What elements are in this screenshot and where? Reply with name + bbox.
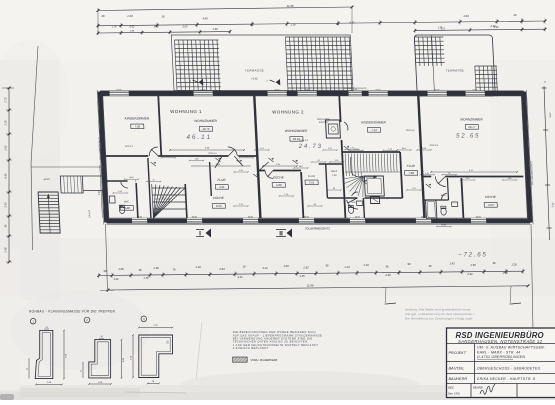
- door arc stairwell top: [344, 122, 348, 130]
- svg-text:4.40: 4.40: [494, 26, 499, 29]
- svg-text:1.01: 1.01: [412, 188, 416, 190]
- scan smudge bottom-left: [0, 394, 14, 400]
- svg-text:1.48: 1.48: [154, 26, 159, 29]
- detail 3 dims: [139, 327, 173, 329]
- right vertical chain: [544, 86, 550, 240]
- svg-text:+2.62: +2.62: [251, 77, 258, 81]
- svg-text:W/C: W/C: [124, 200, 129, 204]
- top chain B: [97, 21, 545, 26]
- door arc stairwell bottom: [347, 200, 358, 209]
- svg-text:KÜCHE: KÜCHE: [485, 195, 497, 199]
- WC W1 toilet: [119, 206, 125, 213]
- small dim marks along walls: [160, 156, 176, 159]
- outer wall right: [524, 92, 531, 223]
- left vertical chain: [8, 88, 10, 262]
- svg-text:1.01: 1.01: [425, 173, 429, 175]
- svg-text:FLUR: FLUR: [407, 164, 416, 168]
- W2 bath sink: [357, 201, 363, 206]
- svg-text:1.01: 1.01: [239, 170, 243, 172]
- svg-text:90: 90: [104, 269, 107, 273]
- svg-text:7.45: 7.45: [135, 125, 141, 129]
- terrace 1 door arrow left: [198, 79, 203, 86]
- svg-text:1.10: 1.10: [195, 265, 201, 269]
- windows bottom wall: [131, 218, 147, 223]
- wall horizontal stairwell top y152: [342, 151, 400, 153]
- door arc W1 wohnzimmer: [149, 147, 158, 156]
- svg-text:VOLLWÄRMESCHUTZ: VOLLWÄRMESCHUTZ: [305, 228, 330, 231]
- wall horizontal W3 diele bottom y200: [424, 199, 449, 201]
- svg-text:KINDERZIMMER: KINDERZIMMER: [125, 117, 150, 121]
- svg-text:1.01: 1.01: [328, 148, 332, 150]
- extension drops: [385, 287, 386, 305]
- svg-text:WOHNUNG 2: WOHNUNG 2: [272, 110, 304, 115]
- svg-text:KASTEN: KASTEN: [319, 121, 329, 124]
- wall W1/W2 divider x257: [254, 96, 260, 218]
- svg-text:26: 26: [428, 264, 432, 268]
- svg-text:WOHNZIMMER: WOHNZIMMER: [194, 119, 218, 123]
- svg-text:1.26: 1.26: [511, 263, 517, 267]
- svg-text:OBERGESCHOSS - GEBÄUDETEIL: OBERGESCHOSS - GEBÄUDETEIL: [477, 367, 541, 371]
- svg-text:UM- U. AUSBAU WIRTSCHAFTSGEB.: UM- U. AUSBAU WIRTSCHAFTSGEB.: [477, 346, 545, 350]
- svg-text:TERRASSE: TERRASSE: [245, 69, 265, 73]
- interior vertical dim left inside: [100, 165, 103, 218]
- svg-text:6.67: 6.67: [549, 112, 552, 117]
- svg-text:1.76: 1.76: [112, 26, 117, 29]
- svg-text:Die Herstellung von Zeichnunge: Die Herstellung von Zeichnungen erfolgt …: [405, 317, 473, 321]
- svg-text:BAUHERR: BAUHERR: [449, 377, 468, 381]
- svg-text:und ggf. in Abstimmung mit dem: und ggf. in Abstimmung mit dem Unternehm…: [405, 312, 474, 316]
- windows top wall: [109, 91, 129, 96]
- svg-text:11.89: 11.89: [307, 284, 314, 288]
- svg-text:BAUTEIL: BAUTEIL: [449, 367, 465, 371]
- svg-text:2 4 . 7 3: 2 4 . 7 3: [297, 143, 321, 150]
- svg-text:6.40: 6.40: [5, 173, 8, 178]
- svg-text:2.34: 2.34: [551, 202, 554, 208]
- wall dusche W2 x326-341: [326, 120, 341, 138]
- svg-text:1.76: 1.76: [143, 276, 149, 280]
- interior dim W1: [170, 149, 244, 151]
- svg-text:2.30: 2.30: [131, 355, 133, 361]
- svg-text:4.90: 4.90: [463, 14, 469, 18]
- door arc W2 bath: [352, 192, 359, 196]
- insulation band outer lines: [100, 89, 524, 91]
- svg-text:16: 16: [162, 15, 165, 19]
- detail circle 2: [84, 317, 90, 323]
- svg-text:0.62: 0.62: [130, 26, 135, 29]
- svg-text:76: 76: [173, 268, 176, 272]
- svg-text:ROHBAU - PLANUNGSMASSE FÜR DIE: ROHBAU - PLANUNGSMASSE FÜR DIE TREPPEN: [29, 310, 116, 314]
- svg-text:1.13: 1.13: [344, 265, 350, 269]
- svg-text:3.51: 3.51: [309, 181, 315, 185]
- terrace 1 door arrow right: [275, 79, 280, 86]
- wall W2 bath x361: [363, 198, 364, 218]
- door arc W3 bad: [441, 193, 447, 200]
- svg-text:ABST.: ABST.: [330, 170, 338, 173]
- svg-text:1.01: 1.01: [113, 277, 119, 281]
- svg-text:36: 36: [326, 263, 329, 267]
- svg-text:VOLLWÄRMESCHUTZ: VOLLWÄRMESCHUTZ: [344, 87, 367, 90]
- svg-text:O-4751 OBERRÖBLINGEN: O-4751 OBERRÖBLINGEN: [477, 355, 525, 359]
- svg-text:90: 90: [408, 262, 411, 266]
- svg-text:26.77: 26.77: [467, 125, 476, 129]
- top chain C partial left: [98, 32, 230, 33]
- svg-text:SANGERHAUSEN, NOTENSTRAßE 12: SANGERHAUSEN, NOTENSTRAßE 12: [458, 339, 543, 344]
- svg-text:VORH. MAUERWERK: VORH. MAUERWERK: [251, 358, 278, 362]
- svg-text:4.86: 4.86: [202, 17, 208, 21]
- svg-text:KÜCHE: KÜCHE: [273, 176, 285, 180]
- svg-text:9.63: 9.63: [488, 203, 494, 207]
- interior dim W3: [431, 171, 517, 173]
- svg-text:4.31: 4.31: [349, 21, 355, 25]
- bottom chain total 11.89: [108, 286, 528, 290]
- svg-text:7.14: 7.14: [371, 128, 377, 132]
- svg-text:11.98: 11.98: [287, 4, 294, 8]
- wall horizontal W1 rooms bottom y156: [103, 155, 148, 157]
- interior dim W2: [263, 165, 297, 167]
- wall W3 diele x446: [447, 178, 448, 200]
- detail shape 3 (corner profile): [139, 335, 173, 378]
- door leaf diagonals W1 flur: [234, 156, 243, 166]
- svg-text:5 2 . 6 5: 5 2 . 6 5: [456, 133, 479, 140]
- svg-text:2.64: 2.64: [65, 353, 68, 359]
- svg-text:4.12: 4.12: [237, 275, 243, 279]
- svg-text:1.36: 1.36: [153, 266, 159, 270]
- stair walk line with arrow: [350, 157, 373, 177]
- wall W2 divider x342: [339, 96, 340, 122]
- svg-text:POS 3.4: POS 3.4: [208, 152, 217, 155]
- box below landing: [370, 197, 379, 204]
- outer wall bottom: [107, 219, 531, 224]
- detail circle 3: [141, 316, 147, 322]
- W3 bathtub: [426, 200, 437, 219]
- svg-text:2.46: 2.46: [384, 273, 391, 277]
- svg-text:26: 26: [513, 13, 517, 17]
- svg-text:2.10: 2.10: [5, 120, 8, 126]
- svg-text:PROJEKT: PROJEKT: [449, 351, 467, 355]
- svg-text:TERRASSE: TERRASSE: [446, 69, 465, 73]
- W3 sink: [452, 202, 458, 207]
- interior dim kueche W1: [191, 165, 251, 167]
- svg-text:5.88: 5.88: [276, 183, 282, 187]
- terrace 2 bottom-right paving grid: [475, 66, 499, 96]
- svg-text:1.80: 1.80: [332, 175, 337, 177]
- svg-text:±0.00: ±0.00: [43, 178, 50, 181]
- svg-text:8.50: 8.50: [216, 204, 222, 208]
- right extension vertical: [531, 224, 533, 330]
- svg-text:7.88: 7.88: [408, 171, 414, 175]
- W2 shower square: [328, 124, 338, 134]
- site line horizontal: [31, 166, 104, 168]
- svg-text:1.10: 1.10: [363, 263, 369, 267]
- detail 1 top tick: [44, 328, 49, 330]
- svg-text:1.00: 1.00: [118, 267, 124, 271]
- svg-text:2.49: 2.49: [126, 14, 133, 18]
- svg-text:1.01: 1.01: [335, 160, 339, 162]
- main stairwell treads: [341, 154, 401, 197]
- W3 toilet: [441, 208, 447, 215]
- door arc W3 entry: [435, 177, 446, 187]
- svg-text:WOHNZIMMER: WOHNZIMMER: [460, 118, 484, 122]
- svg-text:Achtung: Alle Maße sind grunds: Achtung: Alle Maße sind grundsätzlich he…: [405, 308, 471, 312]
- svg-text:Ω: Ω: [521, 18, 524, 22]
- svg-text:DEZ.: DEZ.: [448, 386, 455, 390]
- svg-text:2.79: 2.79: [5, 97, 8, 103]
- detail shape 2 (L profile): [89, 340, 111, 378]
- title block column line: [474, 344, 476, 384]
- wall stair W1 right x183.5: [185, 184, 187, 218]
- terrace 2 left paving grid: [414, 37, 444, 66]
- wall WC W1 x134.5: [136, 183, 138, 218]
- title block frame: [447, 328, 555, 398]
- wall stair W1 left x147.5: [148, 158, 151, 218]
- svg-text:3.48: 3.48: [124, 206, 130, 210]
- svg-text:2.01: 2.01: [159, 197, 164, 199]
- svg-text:ERIKA HECKER - HAUPTSTR. 8: ERIKA HECKER - HAUPTSTR. 8: [477, 377, 535, 381]
- svg-text:36: 36: [139, 268, 142, 272]
- terrace 1 outline: [171, 35, 353, 91]
- wall horizontal WC W1 top y181: [105, 180, 128, 182]
- wall horizontal corridor W2 y164: [319, 163, 343, 165]
- signature squiggle: [480, 384, 495, 394]
- terrace 2 outline: [414, 35, 495, 96]
- stairwell inner landing box: [364, 176, 384, 196]
- door arc WC W1: [121, 182, 128, 188]
- wall kueche W2 right x300: [301, 172, 303, 218]
- svg-text:KINDERZIMMER: KINDERZIMMER: [361, 121, 386, 125]
- outer wall left: [100, 92, 107, 223]
- svg-text:FLUR: FLUR: [308, 174, 315, 178]
- svg-text:26: 26: [101, 14, 105, 18]
- svg-text:WOHNZIMMER: WOHNZIMMER: [285, 129, 309, 133]
- svg-text:2.63: 2.63: [182, 26, 188, 29]
- detail 1 dims: [63, 330, 65, 378]
- svg-text:1.35: 1.35: [299, 274, 305, 278]
- svg-text:14: 14: [45, 327, 47, 329]
- svg-text:1.50: 1.50: [470, 263, 476, 267]
- W1 fan stair treads: [152, 184, 187, 218]
- svg-text:KARL - MARX - STR. 44: KARL - MARX - STR. 44: [477, 350, 521, 354]
- terrace 1 right paving grid: [285, 37, 353, 91]
- svg-text:14: 14: [100, 336, 102, 338]
- svg-text:4.61: 4.61: [219, 185, 225, 189]
- svg-text:4 6 . 1 1: 4 6 . 1 1: [186, 134, 210, 141]
- svg-text:1.70: 1.70: [502, 271, 508, 275]
- left extension vertical: [106, 224, 108, 292]
- wall horizontal stairwell bottom y198: [327, 197, 357, 199]
- svg-text:ROLLADEN: ROLLADEN: [317, 118, 330, 121]
- wall flur/kueche W1 x209: [210, 162, 212, 196]
- wall horizontal W2 wohnzimmer bottom y170.5: [258, 170, 265, 172]
- svg-text:BEARB: BEARB: [473, 386, 483, 390]
- site boundary diagonal: [25, 46, 44, 163]
- exterior landing: [60, 176, 83, 193]
- door arc W2 kueche: [265, 171, 273, 179]
- svg-text:2.63: 2.63: [218, 267, 225, 271]
- WC W1 sink: [109, 196, 115, 203]
- bottom chain main: [99, 271, 523, 275]
- wall stairwell right x400: [400, 152, 402, 198]
- svg-text:2.39: 2.39: [5, 202, 8, 208]
- svg-text:1.43: 1.43: [449, 262, 455, 266]
- detail 2 dims: [121, 340, 123, 378]
- door arc W1 second: [228, 147, 237, 156]
- svg-text:36: 36: [493, 261, 496, 265]
- svg-text:10: 10: [243, 265, 246, 269]
- detail circle 1: [30, 318, 36, 324]
- svg-text:Ω: Ω: [251, 23, 254, 27]
- svg-text:1.36: 1.36: [438, 27, 443, 30]
- svg-text:14: 14: [167, 341, 169, 343]
- terrace 1 left paving grid: [175, 40, 222, 91]
- svg-text:W/C: W/C: [351, 202, 356, 204]
- svg-text:2.62: 2.62: [302, 266, 309, 270]
- svg-text:1.51: 1.51: [260, 148, 264, 150]
- svg-text:KÜCHE: KÜCHE: [213, 196, 225, 200]
- wall abst x325: [326, 164, 328, 198]
- svg-text:4.12: 4.12: [262, 266, 268, 270]
- svg-text:FLUR: FLUR: [217, 178, 226, 182]
- svg-text:1.36: 1.36: [290, 23, 296, 27]
- title block row lines: [447, 343, 555, 345]
- wall horizontal W3 y176.5: [422, 176, 431, 178]
- svg-text:2.63: 2.63: [5, 145, 8, 151]
- wall W3 bad/kueche x460: [461, 178, 463, 218]
- svg-text:POS 3.3: POS 3.3: [300, 140, 309, 142]
- svg-text:1.00: 1.00: [283, 264, 289, 268]
- exterior stair: [38, 192, 60, 233]
- site boundary vertical: [28, 163, 35, 250]
- svg-text:0 EINFACH BEPLANKT: 0 EINFACH BEPLANKT: [233, 346, 269, 350]
- svg-text:2.48: 2.48: [5, 247, 8, 253]
- svg-text:POS 3.1: POS 3.1: [125, 146, 134, 148]
- svg-text:WOHNUNG 1: WOHNUNG 1: [170, 109, 202, 114]
- svg-text:2.92: 2.92: [466, 272, 473, 276]
- svg-text:1.51: 1.51: [118, 191, 122, 193]
- wall W1 room divider x161: [158, 96, 161, 156]
- svg-text:1.30: 1.30: [212, 27, 218, 31]
- svg-text:POS 3.5: POS 3.5: [430, 145, 439, 147]
- inner face lines of outer walls: [103, 95, 522, 97]
- terrace 2 inner divider: [432, 35, 435, 96]
- paper crease line: [196, 322, 202, 380]
- svg-text:Ω: Ω: [337, 22, 340, 26]
- detail shape 1 (boot profile): [35, 330, 53, 378]
- outer wall top: [100, 91, 524, 96]
- svg-text:36: 36: [386, 264, 389, 268]
- svg-text:18.76: 18.76: [202, 127, 210, 131]
- svg-text:~ 7 2 . 6 5: ~ 7 2 . 6 5: [458, 252, 486, 259]
- svg-text:Dez. 1991: Dez. 1991: [448, 392, 460, 396]
- svg-text:2.01: 2.01: [353, 148, 358, 150]
- svg-text:BAD: BAD: [441, 194, 446, 197]
- svg-text:POS 3.3: POS 3.3: [406, 130, 415, 132]
- top chain C partial right: [415, 29, 545, 30]
- tiny diagonal arrow marks: [237, 160, 242, 164]
- wall W2/W3 divider x421: [418, 96, 424, 218]
- scan mottling: [0, 238, 555, 296]
- W2 bath toilet: [348, 207, 354, 214]
- top chain A total 11.98: [98, 7, 352, 11]
